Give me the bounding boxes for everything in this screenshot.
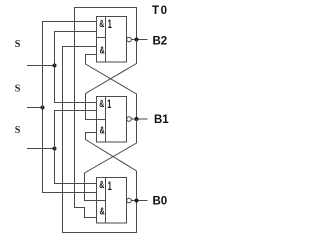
AND-OR-invert gate U2 (bit B1 cell)	[97, 97, 132, 143]
svg-text:1: 1	[108, 181, 112, 193]
svg-text:S: S	[15, 83, 21, 95]
wire S1 input	[27, 65, 55, 67]
wire S2 input	[27, 107, 43, 109]
wire S2 to U1 and U3	[43, 22, 97, 193]
svg-text:&: &	[99, 180, 104, 191]
svg-text:&: &	[100, 126, 105, 137]
wire B1 cross feedback to U3	[85, 119, 137, 201]
svg-text:B2: B2	[153, 36, 168, 48]
wire B2 cross feedback to U2	[86, 40, 137, 120]
wire B2 output	[132, 39, 148, 41]
svg-text:B0: B0	[153, 196, 168, 208]
svg-text:S: S	[15, 124, 21, 136]
node S1 junction	[53, 64, 57, 68]
wire B1 cross feedback to U1	[86, 55, 137, 120]
svg-text:&: &	[99, 19, 104, 30]
svg-text:S: S	[15, 38, 21, 50]
node S3 junction	[53, 147, 57, 151]
svg-text:T0: T0	[152, 5, 169, 17]
AND-OR-invert gate U1 (bit B2 cell)	[97, 17, 132, 63]
AND-OR-invert gate U3 (bit B0 cell)	[97, 178, 132, 224]
wire S3 input	[27, 148, 55, 150]
wire B1 output	[132, 118, 148, 120]
svg-text:&: &	[100, 207, 105, 218]
svg-text:&: &	[100, 46, 105, 57]
wire B0 cross feedback to U2	[86, 133, 137, 201]
svg-text:B1: B1	[154, 114, 169, 126]
node B2	[135, 38, 139, 42]
node S2 junction	[41, 106, 45, 110]
wire B0 output	[132, 200, 148, 202]
node B0	[135, 199, 139, 203]
wire B0 ring feedback to U1	[63, 47, 137, 233]
svg-text:&: &	[99, 99, 104, 110]
node B1	[135, 117, 139, 121]
wire T0 loop from B2 to U3	[75, 8, 137, 218]
wire S1 to U1 and U2	[55, 32, 97, 103]
svg-text:1: 1	[107, 99, 111, 111]
svg-text:1: 1	[108, 19, 112, 31]
wire S3 to U2 and U3	[55, 111, 97, 184]
